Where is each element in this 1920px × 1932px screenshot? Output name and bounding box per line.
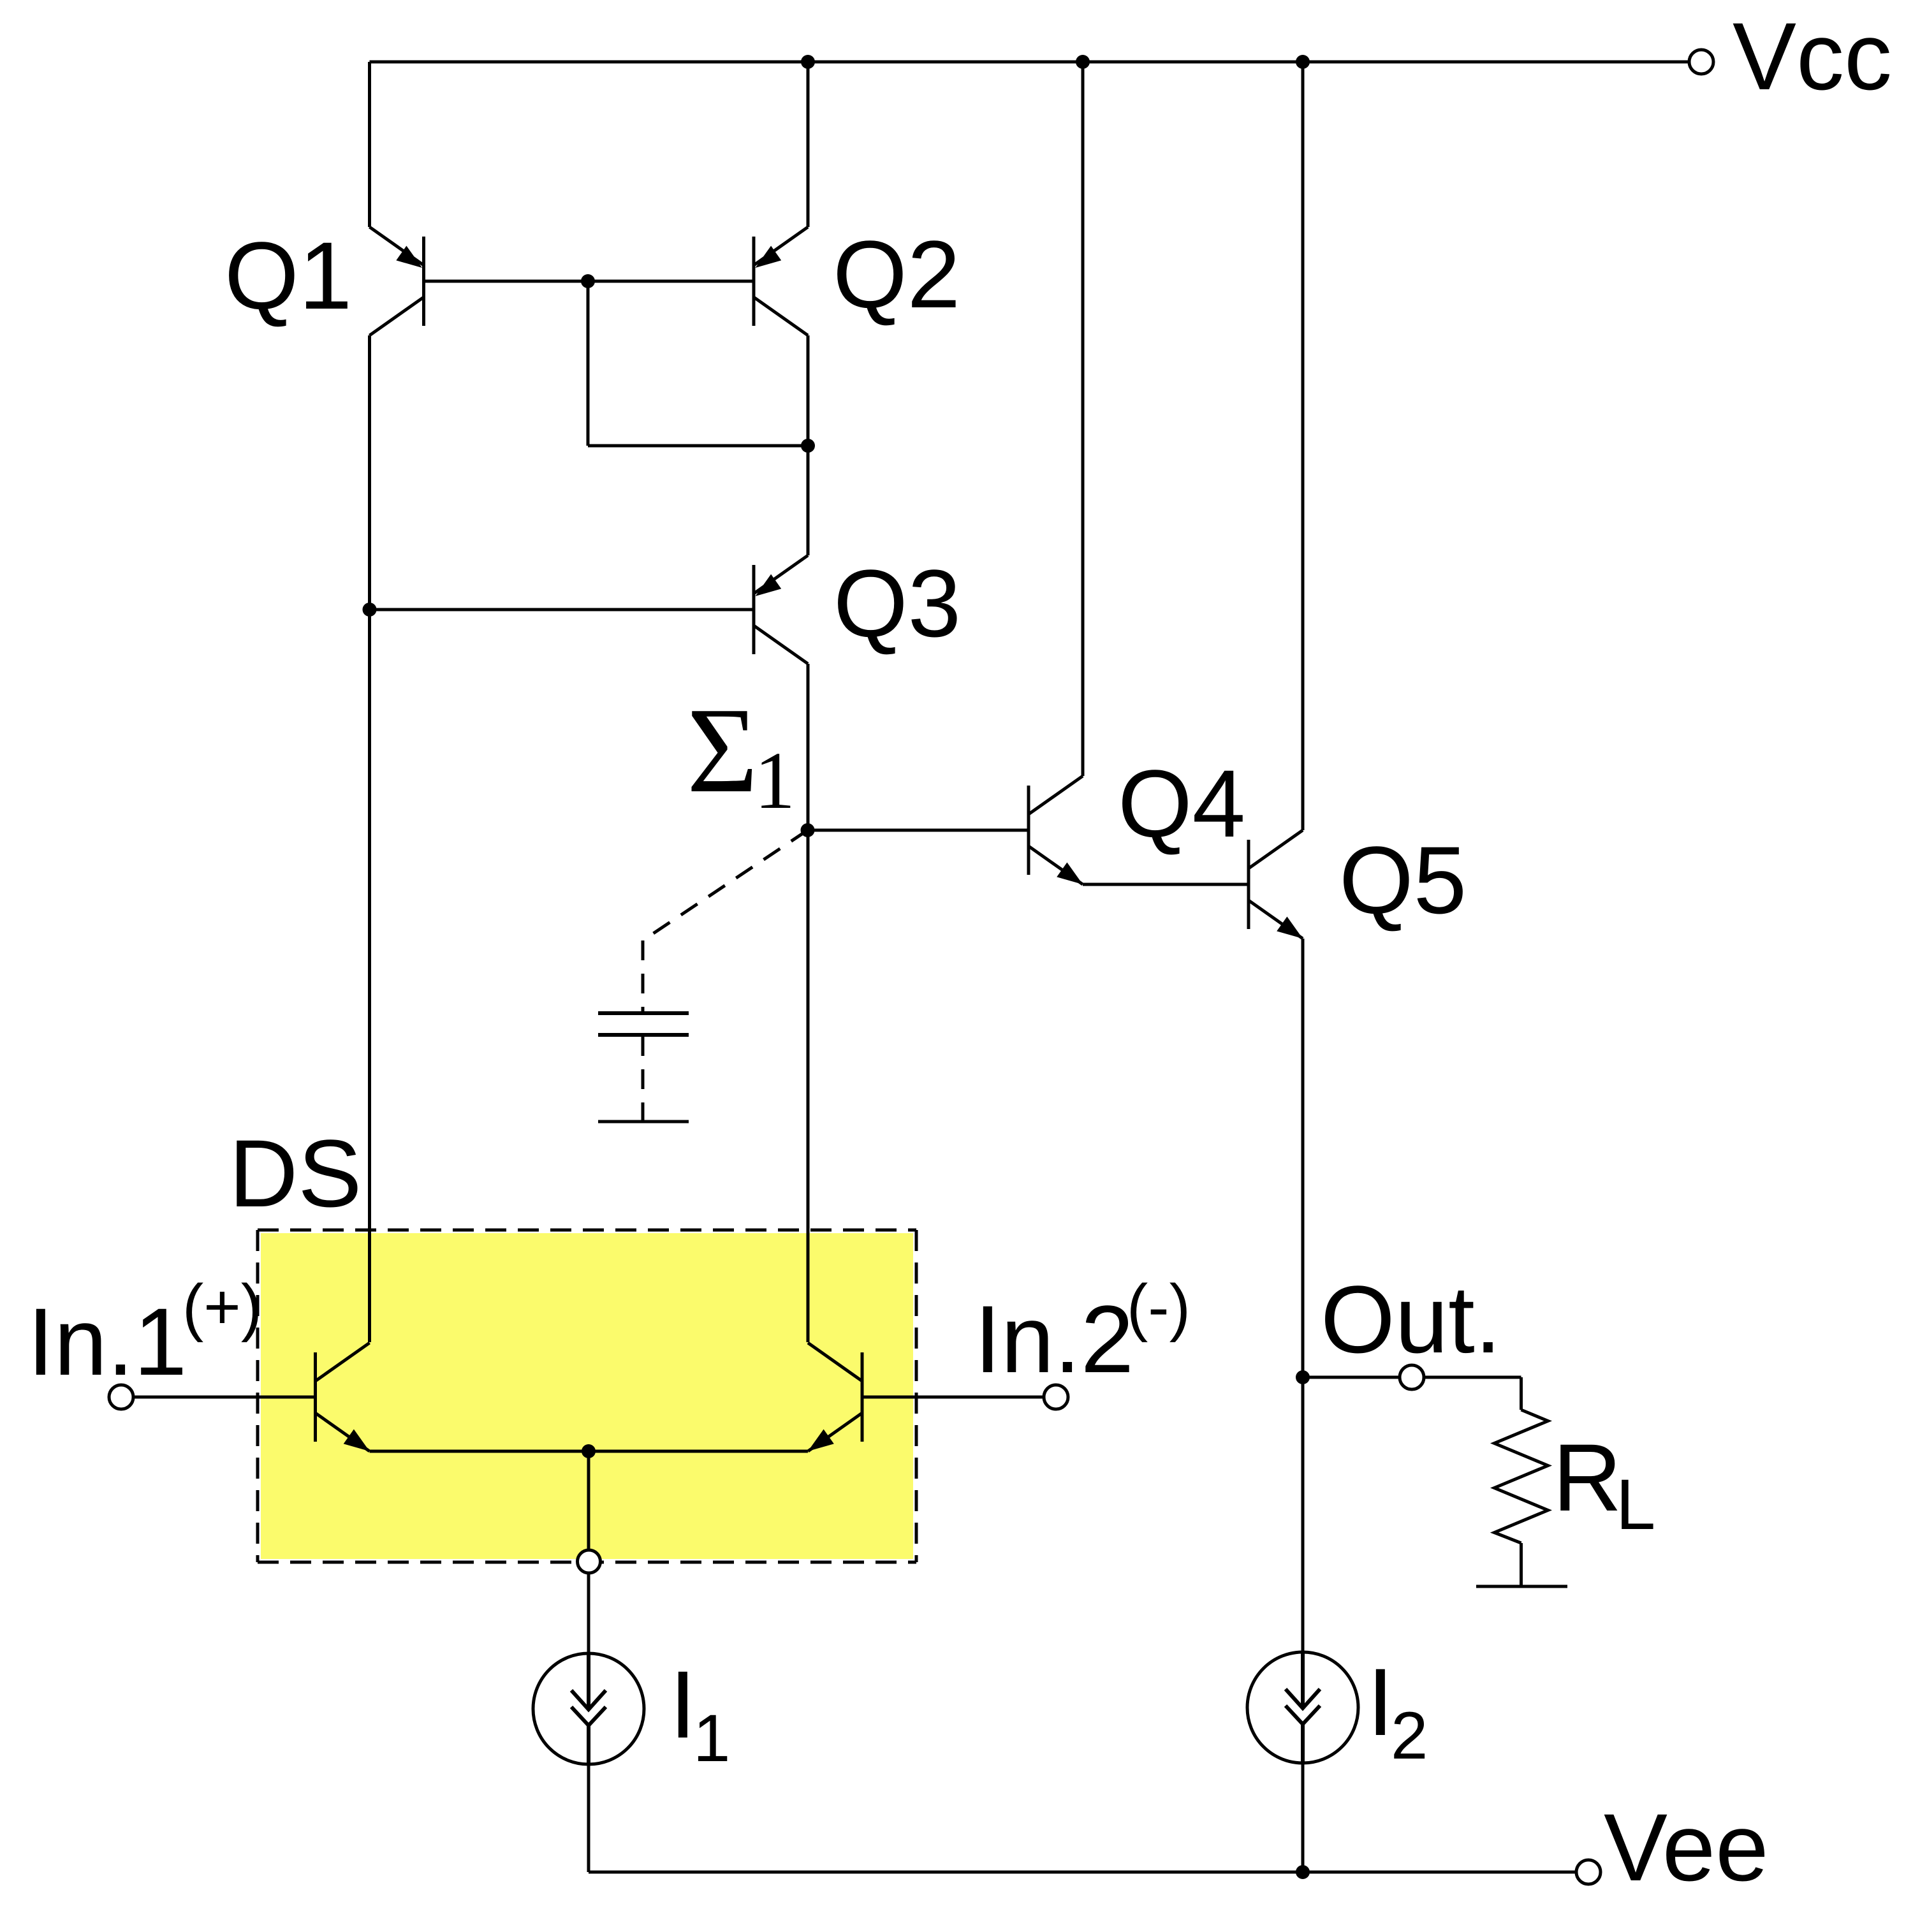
transistor Q1 (PNP) [370, 227, 424, 335]
svg-text:2: 2 [1391, 1699, 1428, 1773]
transistor Q2 (PNP) [754, 227, 808, 335]
svg-text:Q1: Q1 [224, 222, 352, 329]
wire Q5 collector from rail [1301, 62, 1305, 830]
svg-text:Vee: Vee [1604, 1794, 1769, 1901]
svg-text:Q4: Q4 [1118, 750, 1245, 857]
svg-text:Out.: Out. [1321, 1266, 1501, 1373]
current source I2 [1247, 1652, 1358, 1763]
svg-text:I: I [670, 1651, 696, 1758]
wire Q1 collector down to DS [368, 335, 371, 1342]
terminal Out [1400, 1365, 1424, 1389]
wire Q4 emitter to Q5 base [1081, 883, 1085, 886]
wire bottom rail [589, 1871, 1576, 1874]
differential stage DS highlighted box [261, 1233, 913, 1559]
node bottom rail junction at I2 [1296, 1865, 1310, 1879]
svg-text:In.2: In.2 [974, 1285, 1134, 1393]
node junction on rail at Q4 column [1076, 55, 1090, 69]
svg-text:Σ: Σ [687, 682, 758, 818]
wire In.1 input [133, 1396, 316, 1399]
wire Q4 collector from rail [1081, 62, 1085, 776]
node Q3 base on Q1 collector line [363, 603, 377, 617]
transistor Q3 (PNP) [754, 555, 808, 664]
node junction on rail at Q2 column [801, 55, 815, 69]
capacitor (dashed, compensation) [598, 830, 808, 1120]
resistor RL [1495, 1410, 1548, 1543]
wire Q3 collector down to node S1 and DS [807, 664, 810, 1342]
wire out terminal to RL [1424, 1376, 1521, 1379]
wire DS tail down [587, 1451, 590, 1550]
svg-text:(-): (-) [1127, 1271, 1191, 1343]
wire Q3 base [370, 608, 754, 611]
wire S1 node to Q4 base [808, 829, 1029, 832]
wire Q5 emitter down to output node [1301, 939, 1305, 1377]
svg-text:Vcc: Vcc [1733, 3, 1892, 110]
svg-text:I: I [1367, 1648, 1394, 1755]
wire output to terminal [1303, 1376, 1400, 1379]
svg-text:In.1: In.1 [27, 1288, 187, 1395]
svg-text:DS: DS [229, 1120, 362, 1227]
wire Q2 emitter from rail [807, 62, 810, 227]
transistor Q4 (NPN) [1029, 776, 1083, 884]
svg-text:R: R [1553, 1424, 1622, 1531]
wire DS emitter bus [370, 1450, 809, 1453]
ground (capacitor) [598, 1120, 689, 1123]
terminal Vee [1576, 1860, 1601, 1884]
wire DS tail to I1 [587, 1573, 590, 1872]
terminal In.2 [1044, 1385, 1068, 1409]
wire Vcc top rail [370, 61, 1689, 64]
node Q2 collector junction [801, 439, 815, 453]
wire base-to-collector tie horizontal [588, 444, 808, 448]
svg-text:Q3: Q3 [833, 550, 961, 657]
svg-text:Q2: Q2 [833, 221, 960, 328]
terminal Vcc [1689, 50, 1713, 74]
wire output node down to I2 [1301, 1377, 1305, 1872]
svg-text:1: 1 [693, 1701, 730, 1776]
ground (RL) [1476, 1585, 1567, 1588]
transistor DS left (NPN) [316, 1343, 370, 1451]
node base tie junction [581, 274, 595, 288]
svg-text:(+): (+) [182, 1271, 262, 1343]
wire Q1 emitter from rail [368, 62, 371, 227]
node junction on rail at Q5 column [1296, 55, 1310, 69]
svg-text:1: 1 [754, 735, 795, 826]
wire RL to ground [1520, 1543, 1523, 1586]
current source I1 [533, 1653, 644, 1764]
wire Q2 collector to Q3 emitter [807, 335, 810, 555]
wire shared base Q1-Q2 [424, 280, 754, 283]
node S1 (sigma-1) summing node [801, 823, 815, 837]
wire base-to-collector tie vertical [587, 281, 590, 446]
transistor Q5 (NPN) [1249, 830, 1303, 939]
wire In.2 input [862, 1396, 1044, 1399]
terminal In.1 [109, 1385, 133, 1409]
svg-text:L: L [1616, 1465, 1655, 1544]
node DS tail junction [582, 1444, 596, 1458]
terminal DS tail [578, 1550, 601, 1573]
svg-text:Q5: Q5 [1339, 826, 1467, 933]
transistor DS right (NPN) [808, 1343, 862, 1451]
node output junction [1296, 1370, 1310, 1384]
